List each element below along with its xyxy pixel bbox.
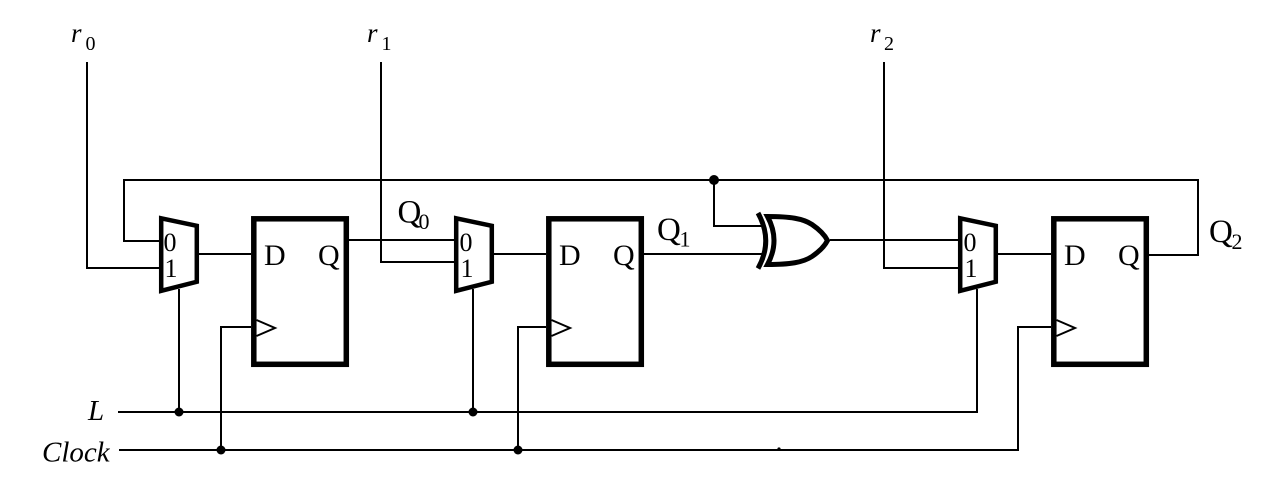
wire Clock line to FF3 clock input bbox=[119, 327, 1051, 450]
wire r0 input to mux U1 pin 1 bbox=[87, 62, 159, 268]
wire r1 input to mux U2 pin 1 bbox=[381, 62, 454, 262]
svg-text:0: 0 bbox=[164, 228, 177, 257]
wire FF1 clock input to Clock line bbox=[221, 327, 251, 450]
svg-text:r: r bbox=[367, 18, 378, 48]
svg-text:2: 2 bbox=[884, 33, 894, 55]
label r2 bbox=[870, 18, 894, 55]
wire mux U1 select to L line bbox=[178, 289, 180, 412]
wire XOR output to mux U3 pin 0 bbox=[830, 239, 958, 241]
svg-text:Q: Q bbox=[657, 212, 681, 248]
XOR input side arc bbox=[758, 213, 766, 269]
label Q0 bbox=[398, 195, 430, 235]
flip-flop FF2 body bbox=[549, 219, 642, 364]
XOR body bbox=[768, 217, 828, 265]
node feedback junction bbox=[709, 175, 719, 185]
flip-flop FF3 body bbox=[1054, 219, 1147, 364]
mux U1 bbox=[161, 218, 197, 290]
svg-text:Q: Q bbox=[318, 239, 340, 272]
svg-text:2: 2 bbox=[1232, 229, 1243, 254]
svg-text:Clock: Clock bbox=[42, 437, 111, 469]
svg-text:r: r bbox=[71, 18, 82, 48]
flip-flop FF2 bbox=[549, 219, 642, 364]
svg-text:D: D bbox=[559, 239, 581, 272]
mux U3 bbox=[960, 218, 996, 290]
svg-text:0: 0 bbox=[460, 228, 473, 257]
svg-text:1: 1 bbox=[680, 227, 691, 252]
label r1 bbox=[367, 18, 392, 55]
wire FF2 clock input to Clock line bbox=[518, 327, 546, 450]
node small mark on Clock line bbox=[777, 447, 780, 450]
svg-text:0: 0 bbox=[964, 228, 977, 257]
wire mux U1 output to FF1 D bbox=[197, 253, 251, 255]
label Q2 bbox=[1209, 214, 1243, 254]
label r0 bbox=[71, 18, 96, 55]
svg-text:0: 0 bbox=[86, 33, 96, 55]
flip-flop FF1 bbox=[254, 219, 346, 364]
svg-text:1: 1 bbox=[382, 33, 392, 55]
wire mux U2 select to L line bbox=[472, 289, 474, 412]
wire feedback net from Q2 output to mux U1 pin 0 bbox=[124, 180, 1198, 255]
svg-text:Q: Q bbox=[1118, 239, 1140, 272]
wire mux U2 output to FF2 D bbox=[492, 253, 546, 255]
FF1 clock triangle bbox=[257, 320, 276, 336]
label Q1 bbox=[657, 212, 691, 252]
node junction Clock and FF2 bbox=[514, 446, 523, 455]
svg-text:Q: Q bbox=[1209, 214, 1233, 250]
wire FF2 Q output to XOR bottom input bbox=[644, 253, 765, 255]
wire FF1 Q output to mux U2 pin 0 bbox=[349, 239, 454, 241]
svg-text:L: L bbox=[87, 395, 104, 427]
wire feedback tap to XOR top input bbox=[714, 180, 765, 226]
wire L line to mux U3 select bbox=[118, 289, 977, 412]
svg-text:Q: Q bbox=[613, 239, 635, 272]
flip-flop FF3 bbox=[1054, 219, 1147, 364]
mux U2 bbox=[456, 218, 492, 290]
XOR gate G1 bbox=[758, 213, 828, 269]
node junction Clock and FF1 bbox=[217, 446, 226, 455]
node junction L and mux U1 select bbox=[175, 408, 184, 417]
FF3 clock triangle bbox=[1057, 320, 1076, 336]
svg-text:0: 0 bbox=[419, 209, 430, 234]
svg-text:1: 1 bbox=[461, 254, 474, 283]
wire mux U3 output to FF3 D bbox=[996, 253, 1051, 255]
svg-text:D: D bbox=[1064, 239, 1086, 272]
mux U3 body bbox=[960, 218, 996, 290]
FF2 clock triangle bbox=[552, 320, 571, 336]
svg-text:D: D bbox=[264, 239, 286, 272]
wire r2 input to mux U3 pin 1 bbox=[884, 62, 958, 268]
flip-flop FF1 body bbox=[254, 219, 346, 364]
mux U2 body bbox=[456, 218, 492, 290]
svg-text:1: 1 bbox=[965, 254, 978, 283]
node junction L and mux U2 select bbox=[469, 408, 478, 417]
svg-text:1: 1 bbox=[165, 254, 178, 283]
mux U1 body bbox=[161, 218, 197, 290]
svg-text:r: r bbox=[870, 18, 881, 48]
